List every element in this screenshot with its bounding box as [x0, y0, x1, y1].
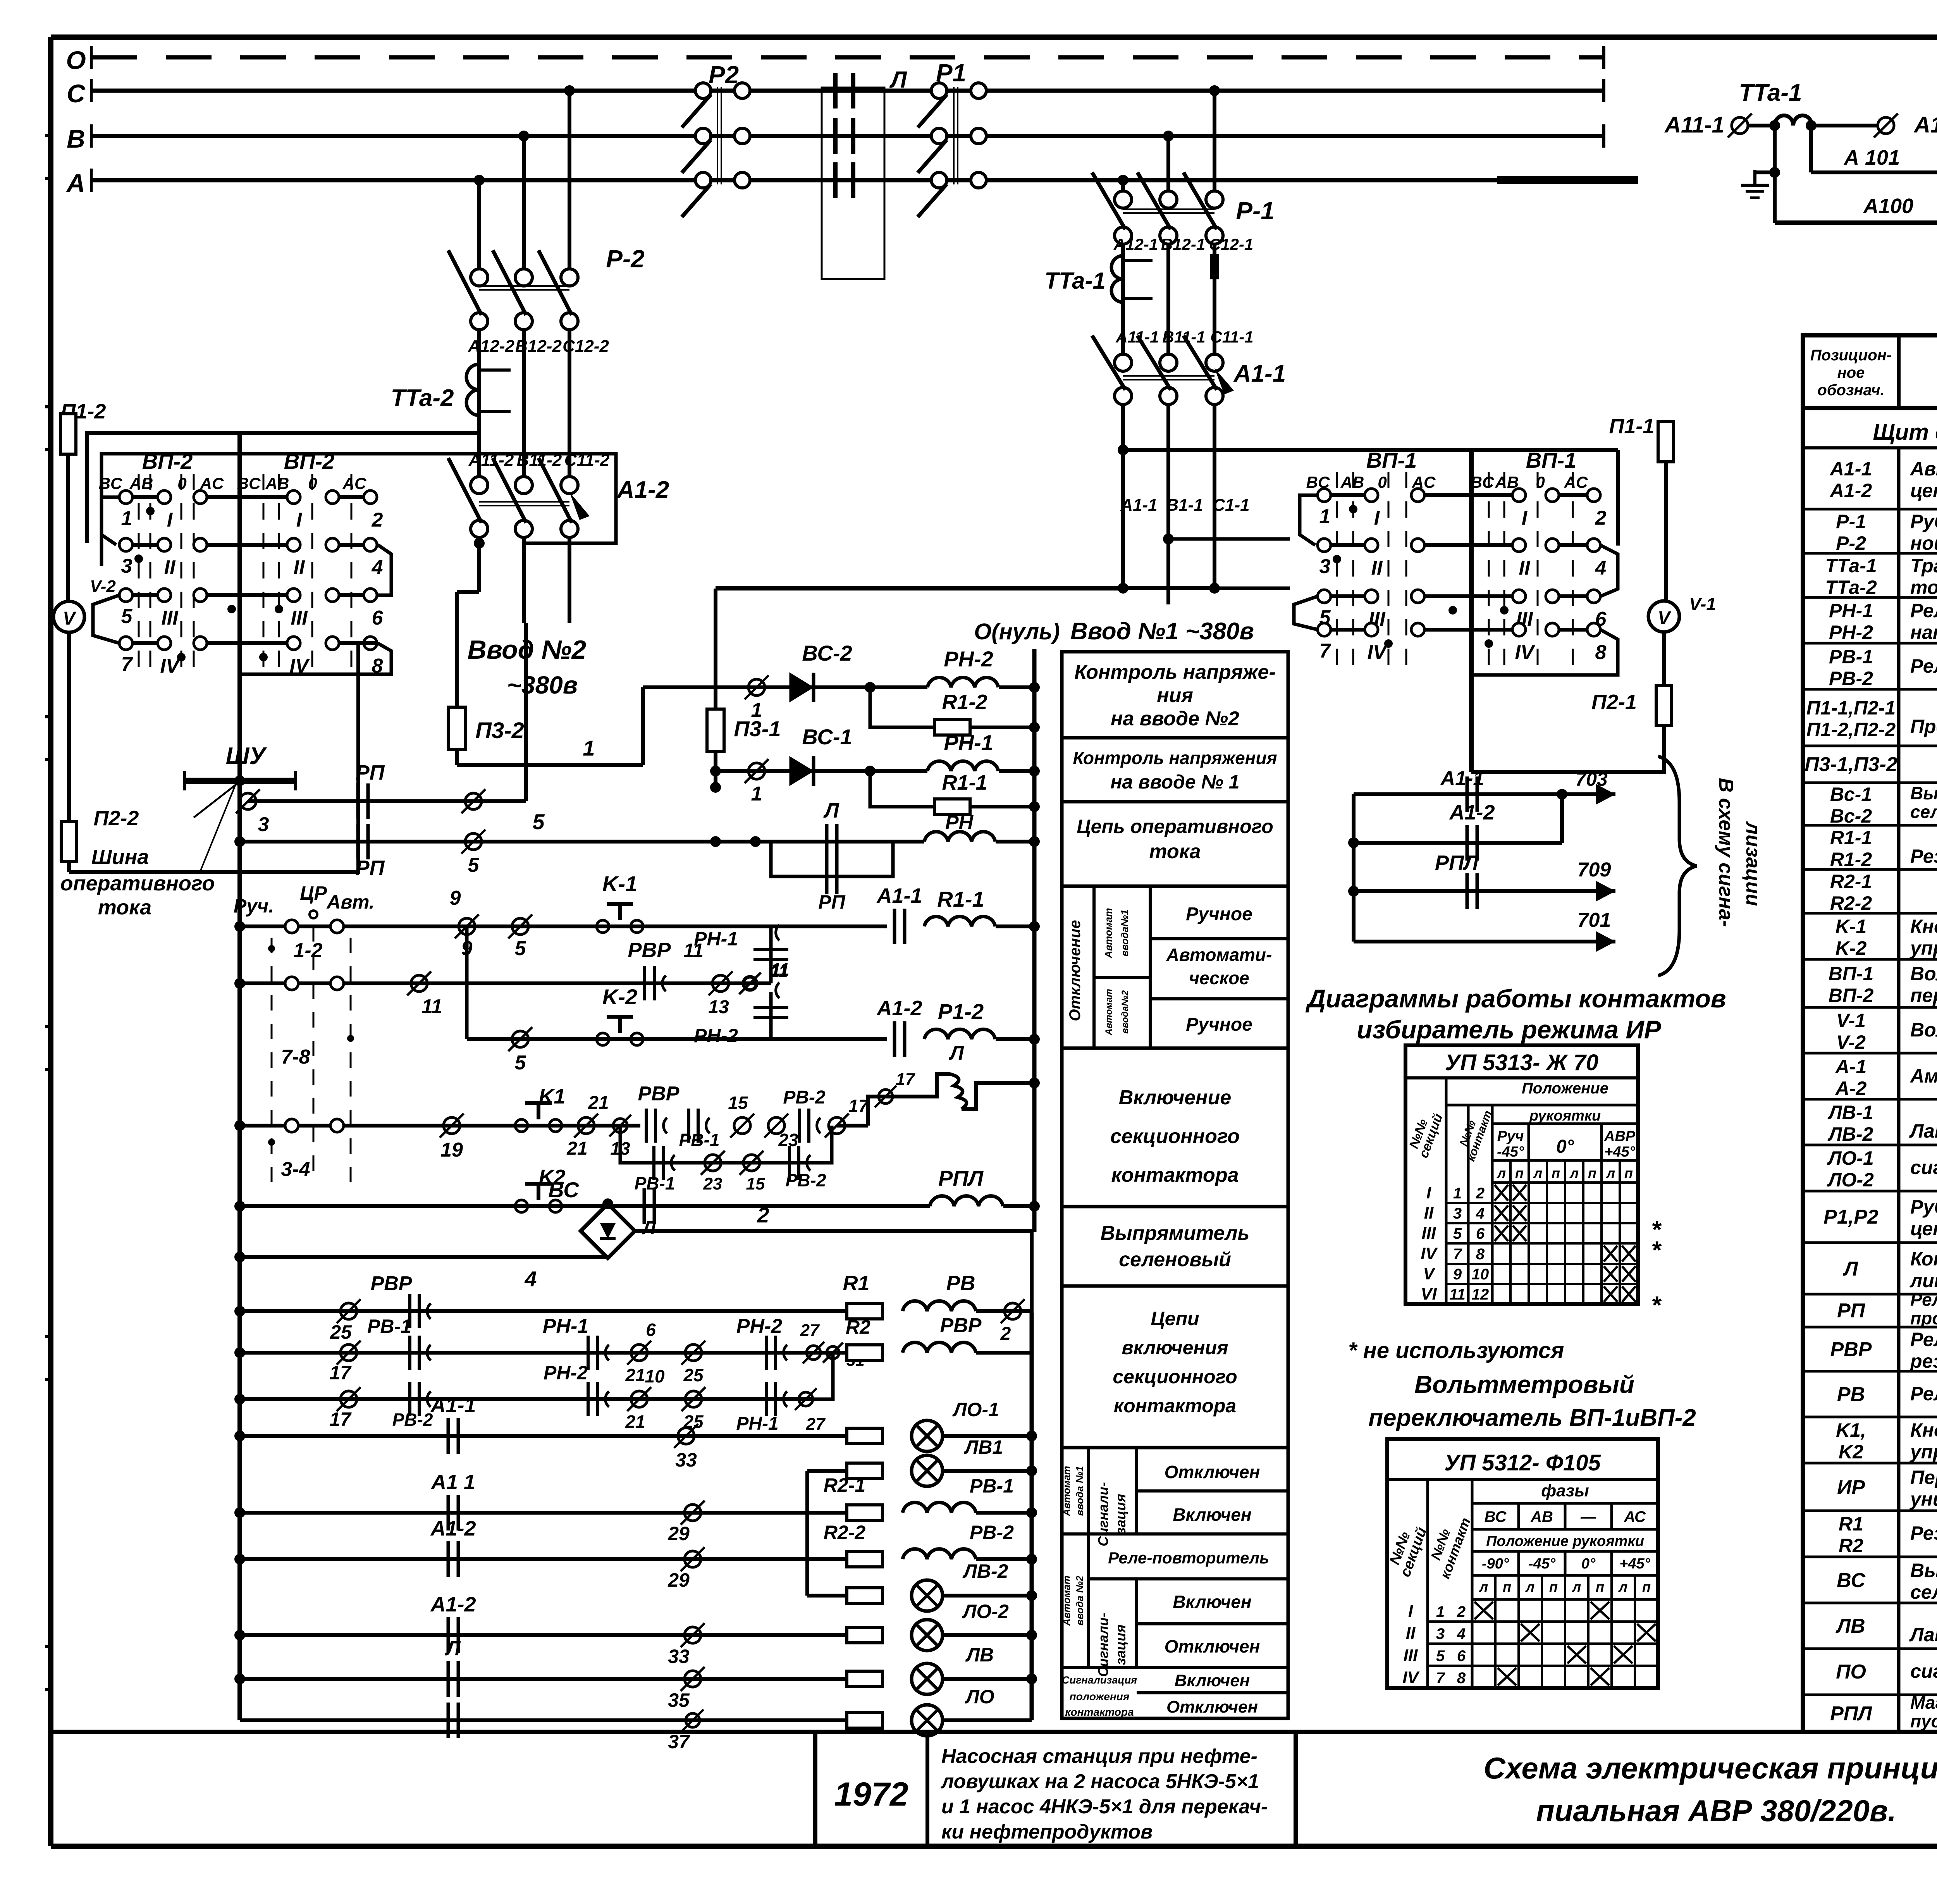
parts table row ИР — [1803, 1467, 1937, 1511]
svg-text:17: 17 — [329, 1362, 352, 1384]
svg-text:А12-1: А12-1 — [1913, 112, 1937, 138]
current transformer TTa-1 — [1044, 256, 1153, 302]
svg-text:19: 19 — [440, 1139, 463, 1161]
svg-text:Контактор: Контактор — [1910, 1248, 1937, 1270]
parts table row РПЛ — [1830, 1692, 1937, 1731]
heading diagrams of contact operation — [1305, 984, 1726, 1044]
svg-text:Реле времени: Реле времени — [1910, 655, 1937, 677]
svg-text:переключатель: переключатель — [1910, 985, 1937, 1006]
svg-text:л: л — [1618, 1579, 1627, 1595]
switch P-2 — [448, 245, 645, 330]
svg-text:ШУ: ШУ — [226, 743, 267, 770]
svg-text:ЛО-1: ЛО-1 — [1827, 1147, 1874, 1169]
svg-text:УП 5312- Ф105: УП 5312- Ф105 — [1444, 1450, 1601, 1475]
svg-text:Сигнали-: Сигнали- — [1095, 1482, 1111, 1546]
parts table row РП — [1803, 1289, 1937, 1333]
svg-text:Амперметр: Амперметр — [1909, 1065, 1937, 1087]
svg-text:А11-1: А11-1 — [1664, 112, 1724, 138]
svg-text:л: л — [1479, 1579, 1488, 1595]
annotation box signalizacia composite — [1061, 1448, 1288, 1718]
svg-text:Л: Л — [642, 1218, 656, 1238]
svg-text:BC: BC — [1471, 473, 1494, 491]
bus A — [66, 169, 1638, 197]
wire row L lamp LO — [240, 1686, 1032, 1753]
svg-text:BC: BC — [99, 474, 122, 492]
svg-text:R2-1: R2-1 — [824, 1474, 865, 1496]
annotation box cep operativnogo toka — [1062, 802, 1288, 886]
svg-text:А 101: А 101 — [1843, 146, 1900, 169]
wire row 19 button K1 bridge — [234, 1114, 640, 1161]
svg-text:ЛО-2: ЛО-2 — [1827, 1169, 1874, 1191]
svg-text:9: 9 — [1453, 1266, 1462, 1283]
relay contact RN-2 link — [694, 962, 788, 1047]
svg-text:РН-1: РН-1 — [543, 1315, 588, 1338]
svg-text:РВ-2: РВ-2 — [1829, 668, 1873, 689]
svg-text:9: 9 — [450, 887, 461, 909]
svg-text:селеновый: селеновый — [1119, 1248, 1231, 1271]
svg-text:А1-1: А1-1 — [1233, 360, 1286, 387]
resistor R1 and coil RV — [843, 1272, 1032, 1344]
svg-text:ввода№2: ввода№2 — [1120, 990, 1130, 1034]
svg-text:4: 4 — [372, 556, 383, 579]
svg-text:6: 6 — [646, 1320, 656, 1340]
svg-text:П3-1,П3-2: П3-1,П3-2 — [1805, 753, 1897, 776]
annotation box kontrol napr vvod 2 — [1062, 652, 1288, 738]
pushbutton K1 — [515, 1085, 566, 1132]
parts table row ЛВ-1 — [1803, 1102, 1937, 1155]
svg-text:ВП-2: ВП-2 — [1829, 985, 1874, 1006]
svg-text:II: II — [164, 556, 176, 579]
svg-text:секционного: секционного — [1113, 1366, 1237, 1388]
svg-text:2: 2 — [1000, 1324, 1011, 1344]
breaker aux contact A1-2 row K-2 — [876, 997, 922, 1057]
bridge lower path RV-1 RV-2 — [620, 1126, 832, 1193]
svg-text:7-8: 7-8 — [281, 1046, 310, 1068]
svg-text:II: II — [1519, 557, 1531, 579]
svg-text:*: * — [1651, 1236, 1662, 1264]
svg-text:РН-2: РН-2 — [944, 647, 993, 671]
annotation box otkluchenie composite — [1062, 886, 1288, 1048]
svg-text:Включен: Включен — [1173, 1505, 1251, 1525]
svg-text:А1-2: А1-2 — [430, 1517, 476, 1540]
svg-text:+45°: +45° — [1619, 1556, 1650, 1572]
mode selector columns Ruch CR Avt — [234, 882, 375, 1182]
svg-text:цепи: цепи — [1910, 1218, 1937, 1239]
svg-text:O(нуль): O(нуль) — [974, 619, 1060, 644]
svg-text:цепи: цепи — [1910, 480, 1937, 501]
svg-text:13: 13 — [708, 997, 729, 1017]
parts table row K-1 — [1803, 916, 1937, 959]
diode VS-2 row — [643, 641, 927, 721]
VP-2 bank hook wiring — [93, 497, 391, 674]
svg-text:п: п — [1549, 1579, 1558, 1595]
svg-text:-45°: -45° — [1528, 1556, 1556, 1572]
svg-text:А1-2: А1-2 — [876, 997, 922, 1020]
svg-text:ВС-1: ВС-1 — [802, 725, 852, 749]
svg-text:R1: R1 — [843, 1272, 869, 1295]
wire row 11 RVR RN-1 chain — [234, 971, 771, 1018]
svg-text:РПЛ: РПЛ — [1435, 851, 1479, 875]
svg-text:РП: РП — [356, 761, 385, 784]
svg-text:Л: Л — [1842, 1258, 1858, 1280]
svg-text:РН-1: РН-1 — [1829, 600, 1873, 621]
svg-text:Вольтметровый: Вольтметровый — [1414, 1370, 1634, 1398]
svg-text:21: 21 — [588, 1093, 609, 1113]
svg-text:K1: K1 — [538, 1085, 565, 1108]
contactor coil L — [868, 1042, 1040, 1126]
svg-text:ПО: ПО — [1836, 1661, 1866, 1683]
disconnect switch P2 — [682, 61, 750, 217]
svg-text:C: C — [67, 79, 86, 108]
relay coil RN-1 — [927, 730, 1040, 776]
svg-text:л: л — [1525, 1579, 1534, 1595]
svg-text:РПЛ: РПЛ — [1830, 1703, 1872, 1725]
svg-text:избиратель режима ИР: избиратель режима ИР — [1357, 1015, 1662, 1044]
svg-text:B: B — [67, 124, 85, 153]
svg-text:А100: А100 — [1863, 195, 1913, 218]
wire phase drops feed 2 middle — [479, 330, 569, 477]
svg-text:ВС: ВС — [1837, 1569, 1866, 1592]
svg-text:Сигнали-: Сигнали- — [1095, 1613, 1111, 1677]
svg-text:P-1: P-1 — [1836, 511, 1866, 532]
svg-text:переключатель ВП-1иВП-2: переключатель ВП-1иВП-2 — [1368, 1405, 1696, 1431]
svg-text:Лампа: Лампа — [1909, 1624, 1937, 1646]
svg-text:V-1: V-1 — [1836, 1010, 1866, 1031]
VP-2 bottom return wire — [69, 643, 378, 872]
svg-text:V: V — [1423, 1264, 1436, 1283]
svg-text:3: 3 — [258, 813, 269, 836]
svg-text:РВ-2: РВ-2 — [970, 1522, 1014, 1543]
svg-text:ЛВ-2: ЛВ-2 — [963, 1560, 1008, 1582]
svg-text:K-2: K-2 — [602, 985, 637, 1009]
svg-text:29: 29 — [667, 1523, 690, 1544]
svg-text:П1-1: П1-1 — [1609, 415, 1655, 438]
wire phase stubs below A1-2 — [474, 537, 569, 623]
svg-text:3-4: 3-4 — [281, 1158, 310, 1181]
svg-text:701: 701 — [1577, 909, 1611, 931]
annotation box vypryamitel selenovyi — [1062, 1207, 1288, 1286]
svg-text:ЛО-1: ЛО-1 — [952, 1399, 999, 1420]
label Vvod N2 380v — [468, 635, 587, 699]
title object description — [940, 1745, 1268, 1843]
svg-text:R2-2: R2-2 — [1830, 892, 1872, 914]
svg-text:п: п — [1588, 1165, 1596, 1181]
svg-text:17: 17 — [896, 1070, 915, 1089]
fuse P3-2 — [448, 592, 524, 765]
svg-text:R2: R2 — [846, 1316, 870, 1338]
svg-text:21: 21 — [625, 1412, 645, 1432]
svg-text:Позицион-: Позицион- — [1810, 347, 1892, 364]
svg-text:Лампа: Лампа — [1909, 1120, 1937, 1142]
neutral rail O — [1032, 649, 1037, 1232]
parts table — [1803, 335, 1937, 1732]
svg-text:VI: VI — [1421, 1284, 1437, 1303]
svg-text:Ручное: Ручное — [1186, 904, 1252, 924]
svg-text:линейный: линейный — [1909, 1270, 1937, 1291]
svg-text:п: п — [1642, 1579, 1651, 1595]
svg-text:ки нефтепродуктов: ки нефтепродуктов — [941, 1821, 1153, 1843]
svg-text:Резистор: Резистор — [1910, 845, 1937, 867]
svg-text:Магнитный: Магнитный — [1910, 1692, 1937, 1713]
parts table row TTа-1 — [1803, 555, 1937, 598]
parts table row ВП-1 — [1803, 963, 1937, 1007]
svg-text:п: п — [1624, 1165, 1633, 1181]
label Vvod N1 380v — [1070, 618, 1254, 645]
svg-text:ЛО-2: ЛО-2 — [962, 1601, 1009, 1622]
svg-text:V-2: V-2 — [1836, 1031, 1866, 1053]
svg-text:РП: РП — [818, 891, 845, 913]
svg-text:Кнопка: Кнопка — [1910, 916, 1937, 937]
svg-text:ВС: ВС — [548, 1178, 580, 1202]
svg-text:РВР: РВР — [940, 1314, 982, 1337]
svg-text:селеновый: селеновый — [1910, 1581, 1937, 1603]
svg-text:Вс-2: Вс-2 — [1830, 805, 1872, 827]
svg-text:TTa-1: TTa-1 — [1739, 79, 1802, 106]
parts table row П1-1,П2-1 — [1803, 697, 1937, 746]
svg-text:Цепь оперативного: Цепь оперативного — [1077, 816, 1273, 837]
svg-text:5: 5 — [515, 937, 526, 960]
svg-text:R1-2: R1-2 — [942, 690, 987, 714]
svg-text:промежуточное: промежуточное — [1910, 1308, 1937, 1328]
svg-text:0: 0 — [1378, 473, 1387, 491]
wire row A1-2 lamp LO-2 — [234, 1593, 1037, 1667]
svg-text:РВР: РВР — [638, 1083, 679, 1105]
svg-text:селеновый: селеновый — [1910, 802, 1937, 822]
svg-text:Реле наличия: Реле наличия — [1910, 600, 1937, 621]
svg-text:В схему сигна-: В схему сигна- — [1715, 778, 1737, 927]
svg-text:5: 5 — [532, 809, 545, 834]
svg-text:6: 6 — [1476, 1225, 1485, 1242]
relay contact RN-1 link rows 9-11 — [694, 925, 788, 983]
svg-text:7: 7 — [1453, 1246, 1462, 1263]
svg-text:TTa-2: TTa-2 — [390, 385, 454, 411]
svg-text:* не используются: * не используются — [1348, 1338, 1564, 1363]
svg-text:P1,P2: P1,P2 — [1823, 1206, 1879, 1228]
svg-text:12: 12 — [1472, 1286, 1489, 1303]
parts table row РН-1 — [1803, 600, 1937, 643]
svg-text:Включен: Включен — [1175, 1671, 1250, 1690]
parts table row ЛВ — [1803, 1606, 1937, 1659]
rectifier VS diamond — [548, 1178, 635, 1258]
svg-text:4: 4 — [524, 1267, 537, 1291]
labels A11-1 B11-1 C11-1 — [1115, 328, 1253, 346]
svg-text:А1-2: А1-2 — [1448, 801, 1495, 824]
current transformer TTa-2 — [390, 364, 511, 415]
wire phase drops feed 1 middle — [1123, 244, 1214, 354]
svg-text:Отключен: Отключен — [1165, 1636, 1260, 1656]
wire top line 1 — [716, 587, 1123, 590]
signal contact A1-2 — [1348, 794, 1562, 942]
svg-text:8: 8 — [1476, 1246, 1485, 1263]
ladder left rail — [237, 781, 242, 1720]
voltmeter switch VP-2 enclosure wiring — [87, 433, 616, 566]
svg-text:П2-1: П2-1 — [1591, 690, 1637, 714]
svg-text:Ручное: Ручное — [1186, 1014, 1252, 1035]
svg-text:4: 4 — [1476, 1205, 1485, 1222]
svg-text:Автомат: Автомат — [1103, 908, 1114, 959]
svg-text:Л: Л — [444, 1637, 461, 1660]
svg-text:Отключен: Отключен — [1165, 1462, 1260, 1482]
svg-text:-45°: -45° — [1497, 1144, 1524, 1160]
svg-text:—: — — [1580, 1508, 1596, 1525]
svg-text:3: 3 — [121, 555, 132, 577]
wire row L lamp LV — [234, 1637, 1037, 1711]
svg-text:п: п — [1596, 1579, 1604, 1595]
svg-text:K-1: K-1 — [1836, 916, 1867, 937]
voltmeter switch ВП-2 contact matrix — [99, 449, 384, 680]
bus B — [67, 124, 1604, 153]
svg-text:А1-1: А1-1 — [1120, 496, 1157, 515]
svg-text:ЛВ1: ЛВ1 — [964, 1436, 1003, 1458]
parts table row Л — [1803, 1248, 1937, 1294]
parts table row ЛО-1 — [1803, 1147, 1937, 1191]
svg-text:I: I — [1408, 1602, 1413, 1621]
VP-1 bank hook wiring — [1294, 495, 1618, 675]
svg-text:контактора: контактора — [1111, 1164, 1239, 1186]
svg-text:K1,: K1, — [1836, 1419, 1866, 1441]
svg-text:РН-1: РН-1 — [944, 730, 993, 755]
svg-text:ввода№1: ввода№1 — [1119, 909, 1130, 956]
ammeter A-1 loop — [1769, 126, 1937, 223]
svg-text:п: п — [1552, 1165, 1560, 1181]
pushbutton K2 — [515, 1165, 566, 1212]
svg-text:пускатель: пускатель — [1910, 1711, 1937, 1731]
svg-text:III: III — [291, 607, 308, 629]
svg-text:РВ-1: РВ-1 — [970, 1475, 1014, 1497]
wire row 17 upper RV-1 RN chain — [234, 1315, 865, 1385]
svg-text:Выпрямитель: Выпрямитель — [1101, 1222, 1250, 1245]
svg-text:TTа-2: TTа-2 — [1825, 577, 1877, 598]
fuse P3-1 — [707, 589, 781, 847]
svg-text:TTa-1: TTa-1 — [1044, 268, 1106, 294]
svg-text:IV: IV — [1402, 1668, 1420, 1687]
lamp rail wire — [1030, 1313, 1034, 1720]
svg-text:Включен: Включен — [1173, 1592, 1251, 1612]
svg-text:Автомати-: Автомати- — [1166, 945, 1272, 965]
svg-text:4: 4 — [1595, 557, 1607, 579]
svg-text:Л: Л — [889, 67, 907, 93]
terminals 21 13 row 19 — [566, 1093, 631, 1159]
wire line 4 bottom of rectifier — [234, 1252, 608, 1291]
svg-text:Предохранитель: Предохранитель — [1910, 716, 1937, 737]
svg-text:л: л — [1606, 1165, 1615, 1181]
wire row A1-2 relay RV-2 repeater — [234, 1517, 1037, 1591]
svg-text:Ввод №1 ~380в: Ввод №1 ~380в — [1070, 618, 1254, 645]
brace to signalization — [1658, 756, 1764, 976]
svg-text:P-2: P-2 — [606, 245, 645, 273]
svg-text:25: 25 — [330, 1321, 352, 1343]
svg-text:P2: P2 — [709, 61, 739, 89]
svg-text:3: 3 — [1436, 1625, 1445, 1642]
relay coil R1-1 — [924, 887, 1040, 932]
fuse P1-2 — [60, 400, 106, 601]
svg-text:РВ-1: РВ-1 — [679, 1130, 720, 1150]
pushbutton K-1 — [597, 871, 643, 933]
svg-text:3: 3 — [1319, 555, 1331, 578]
svg-text:сигнальная: сигнальная — [1910, 1157, 1937, 1178]
svg-text:II: II — [1424, 1203, 1434, 1222]
svg-text:11: 11 — [770, 962, 788, 981]
annotation box kontrol napr vvod 1 — [1062, 738, 1288, 802]
relay coil RN-2 — [927, 647, 1040, 693]
signal wire 701 — [1354, 909, 1615, 952]
svg-text:0°: 0° — [1581, 1556, 1596, 1572]
svg-text:Трансформатор: Трансформатор — [1910, 555, 1937, 577]
svg-text:фазы: фазы — [1541, 1481, 1589, 1500]
svg-text:П3-2: П3-2 — [475, 718, 524, 743]
svg-text:R2-1: R2-1 — [1830, 871, 1872, 892]
svg-text:УП 5313- Ж 70: УП 5313- Ж 70 — [1445, 1050, 1598, 1075]
svg-text:РВ-2: РВ-2 — [392, 1410, 433, 1430]
voltmeter V-2 — [53, 577, 116, 632]
svg-text:рукоятки: рукоятки — [1529, 1108, 1601, 1124]
parts table column lines — [1899, 448, 1937, 1732]
svg-text:O: O — [66, 46, 86, 74]
parts table row P1,P2 — [1803, 1196, 1937, 1243]
contactor aux contact L row K2 — [642, 1188, 656, 1238]
svg-text:ВП-1: ВП-1 — [1366, 448, 1417, 472]
svg-text:Диаграммы работы контактов: Диаграммы работы контактов — [1305, 984, 1726, 1013]
svg-text:P1: P1 — [936, 59, 966, 87]
relay contact RV-2 bridge — [783, 1087, 826, 1143]
svg-text:РВР: РВР — [371, 1272, 412, 1295]
svg-text:Рубильник глав-: Рубильник глав- — [1910, 511, 1937, 532]
svg-text:ловушках на 2 насоса 5НКЭ-5×1: ловушках на 2 насоса 5НКЭ-5×1 — [940, 1770, 1259, 1793]
svg-text:Реле включения: Реле включения — [1910, 1329, 1937, 1350]
svg-text:резерва: резерва — [1909, 1350, 1937, 1372]
svg-text:РВ-1: РВ-1 — [367, 1315, 411, 1337]
wire row A1 1 relay RV-1 repeater — [234, 1470, 1037, 1544]
pushbutton K-2 — [597, 985, 643, 1045]
resistor R2 and coil RVR — [846, 1314, 1032, 1360]
label shina operativnogo toka — [60, 785, 236, 919]
svg-text:Отключение: Отключение — [1067, 920, 1084, 1021]
fuse P2-1 — [1591, 632, 1672, 772]
svg-text:А1-2: А1-2 — [1829, 480, 1872, 501]
annotation box cepi vkluchenia — [1062, 1286, 1288, 1448]
svg-text:Резистор: Резистор — [1910, 1522, 1937, 1544]
wire phase drops feed 2 upper — [479, 91, 569, 269]
svg-text:ной цепи: ной цепи — [1910, 532, 1937, 554]
svg-text:ВП-1: ВП-1 — [1829, 963, 1874, 985]
svg-text:-90°: -90° — [1482, 1556, 1509, 1572]
svg-text:А1-1: А1-1 — [876, 884, 922, 907]
parts table row Вс-1 — [1803, 783, 1937, 827]
svg-text:AC: AC — [1564, 473, 1588, 491]
svg-text:P-1: P-1 — [1236, 197, 1275, 225]
svg-text:10: 10 — [645, 1366, 665, 1386]
svg-text:РН-2: РН-2 — [736, 1315, 783, 1338]
svg-text:тока: тока — [98, 896, 151, 919]
svg-text:РН-2: РН-2 — [1829, 621, 1873, 643]
parts table row R1 — [1803, 1513, 1937, 1557]
svg-text:АВР: АВР — [1604, 1128, 1636, 1145]
parts table row РВ-1 — [1803, 646, 1937, 689]
svg-text:C1-1: C1-1 — [1213, 496, 1249, 515]
resistor R1-2 row — [870, 687, 1040, 735]
svg-text:1: 1 — [1436, 1603, 1445, 1620]
svg-text:контактора: контактора — [1114, 1395, 1236, 1417]
svg-text:РВ-2: РВ-2 — [786, 1170, 826, 1190]
svg-text:Цепи: Цепи — [1151, 1308, 1199, 1329]
svg-text:2: 2 — [1457, 1603, 1466, 1620]
svg-text:А1-1: А1-1 — [1829, 458, 1872, 480]
svg-text:Контроль напряжения: Контроль напряжения — [1073, 748, 1277, 768]
svg-text:R1-1: R1-1 — [1830, 827, 1872, 849]
svg-text:на вводе №2: на вводе №2 — [1111, 708, 1239, 730]
svg-text:Выпрямитель: Выпрямитель — [1910, 783, 1937, 803]
svg-text:ЛО: ЛО — [965, 1686, 994, 1708]
